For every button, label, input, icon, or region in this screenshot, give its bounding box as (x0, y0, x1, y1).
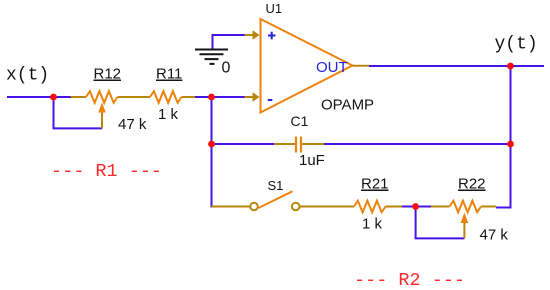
svg-text:OUT: OUT (316, 59, 348, 76)
capacitor C1 (274, 137, 324, 153)
svg-text:--- R1 ---: --- R1 --- (51, 161, 162, 182)
wire left vertical (211, 97, 213, 208)
svg-text:R12: R12 (94, 66, 122, 83)
svg-text:R11: R11 (156, 66, 182, 83)
resistor R11 (150, 91, 195, 103)
resistor R21 (354, 201, 402, 213)
switch S1 (212, 191, 355, 210)
wire R22 wiper loop (416, 207, 465, 239)
svg-text:47 k: 47 k (480, 227, 509, 244)
wire right vertical (496, 66, 511, 208)
wire R11 to minus-input (195, 96, 245, 98)
svg-text:1 k: 1 k (362, 216, 383, 233)
wire R12 wiper loop (54, 97, 103, 128)
svg-text:0: 0 (222, 60, 231, 77)
node junction dot R21-R22 (412, 203, 419, 210)
wire ground to plus-input (213, 35, 245, 50)
wire input rail left (7, 96, 71, 98)
node junction dot C1 left (208, 141, 215, 148)
svg-text:S1: S1 (268, 178, 284, 193)
node junction dot minus input (208, 94, 215, 101)
svg-text:OPAMP: OPAMP (321, 97, 374, 114)
wire C1 branch right (324, 143, 511, 145)
node junction dot input (50, 94, 57, 101)
svg-text:1 k: 1 k (158, 106, 179, 123)
svg-text:R22: R22 (458, 176, 486, 193)
svg-text:--- R2 ---: --- R2 --- (354, 270, 465, 290)
svg-text:C1: C1 (291, 113, 309, 129)
ground (195, 50, 228, 64)
wire R21 to node B (402, 206, 431, 208)
wire output rail (369, 65, 544, 67)
node junction dot C1 right (507, 141, 514, 148)
svg-text:U1: U1 (266, 1, 283, 16)
svg-text:y(t): y(t) (495, 35, 538, 55)
resistor R22 (431, 201, 496, 239)
resistor R12 (71, 91, 151, 128)
svg-text:1uF: 1uF (299, 152, 325, 169)
node junction dot output (507, 63, 514, 70)
svg-text:47 k: 47 k (118, 116, 147, 133)
svg-text:x(t): x(t) (6, 66, 49, 86)
op-amp U1 (245, 19, 369, 113)
wire C1 branch left (212, 143, 275, 145)
svg-text:R21: R21 (361, 176, 389, 193)
